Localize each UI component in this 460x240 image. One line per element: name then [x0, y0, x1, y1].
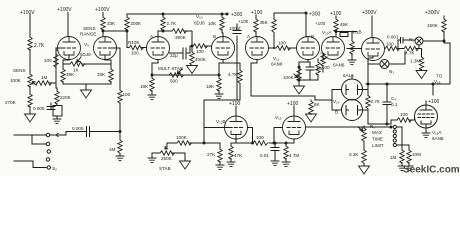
wire	[67, 13, 69, 37]
supply +100V (V9B)	[95, 7, 110, 13]
ground (arrow)	[359, 163, 370, 174]
potentiometer R3	[362, 126, 366, 150]
top rail +300	[127, 13, 227, 15]
neon N2	[404, 37, 445, 49]
ground	[116, 153, 124, 160]
svg-text:1M: 1M	[41, 75, 48, 80]
resistor 220K	[55, 88, 72, 104]
svg-text:1M: 1M	[390, 155, 397, 160]
ground (arrow)	[187, 66, 198, 74]
cathode wire to N1	[368, 57, 380, 65]
wire	[426, 84, 433, 105]
resistor 100 (V12A cathode)	[316, 53, 327, 72]
svg-text:150K: 150K	[427, 23, 439, 28]
svg-text:+300V: +300V	[425, 10, 440, 16]
label STAB	[159, 166, 171, 171]
mult stab rail	[152, 74, 219, 76]
resistor 1M	[37, 75, 52, 85]
potentiometer 100K (sens)	[10, 74, 36, 87]
resistor 1.3M	[410, 57, 424, 70]
capacitor 22uf	[170, 46, 191, 59]
svg-text:SeekIC.com: SeekIC.com	[403, 165, 460, 176]
svg-text:R109: R109	[128, 40, 139, 45]
label V9 6DJ8	[80, 42, 91, 57]
svg-text:2.7K: 2.7K	[371, 99, 381, 104]
svg-text:8K: 8K	[314, 102, 321, 107]
capacitor 0.005 (input)	[33, 103, 55, 111]
tube V13B	[362, 38, 385, 61]
tube V14A (6AL5)	[342, 76, 363, 101]
svg-text:V₁₀: V₁₀	[196, 14, 203, 19]
cathode wire V11A	[251, 60, 257, 97]
resistor 100 (coupling)	[269, 41, 297, 51]
svg-text:V₁₃B: V₁₃B	[352, 30, 362, 35]
svg-text:V₁₅: V₁₅	[275, 115, 282, 120]
svg-text:0.001: 0.001	[387, 35, 399, 40]
switch S3 contacts	[393, 125, 396, 146]
tube V14B (6AL5)	[342, 100, 363, 121]
capacitor 0.001	[387, 35, 404, 44]
label 6AN8	[333, 63, 345, 68]
svg-text:6DJ8: 6DJ8	[80, 52, 91, 57]
ground (arrow)	[81, 90, 92, 98]
wire +300 node	[274, 12, 306, 14]
svg-text:100: 100	[196, 49, 204, 54]
supply +100 (V16A)	[428, 99, 439, 105]
label V12A	[322, 30, 332, 35]
resistor 33K	[101, 17, 116, 30]
wire	[222, 30, 223, 37]
svg-text:+300: +300	[309, 12, 320, 18]
resistor 200K	[125, 14, 142, 30]
supply +100V (left)	[20, 10, 35, 16]
svg-text:V₁₄: V₁₄	[333, 99, 340, 104]
ground	[53, 116, 61, 123]
capacitor 100uf	[229, 24, 241, 34]
wire 250K net	[167, 143, 220, 149]
svg-text:0.005: 0.005	[72, 126, 84, 131]
potentiometer 250K	[152, 146, 185, 161]
svg-text:1M: 1M	[109, 147, 116, 152]
label V12B	[216, 119, 225, 124]
resistor 35K (V11A plate)	[254, 15, 269, 37]
wire	[29, 87, 31, 95]
wire / node	[103, 30, 127, 37]
wire N1 to detector	[367, 64, 369, 84]
wire N1 bus	[389, 51, 405, 64]
resistor 150K	[427, 16, 446, 42]
tube V10A	[147, 34, 170, 60]
supply +300V (V13B)	[362, 10, 377, 16]
resistor 3.3K	[349, 150, 366, 163]
svg-text:1.3M: 1.3M	[410, 59, 420, 64]
watermark	[403, 165, 460, 176]
crystal box	[53, 104, 62, 117]
label R3	[370, 124, 375, 129]
grid wire V9B	[112, 48, 120, 90]
svg-text:+100V: +100V	[20, 10, 35, 16]
wire	[158, 30, 163, 37]
potentiometer 100K (V11B cathode)	[283, 66, 301, 81]
svg-text:TO: TO	[436, 74, 443, 79]
resistor 100 (V9A grid)	[44, 54, 58, 67]
supply +300 label	[231, 12, 242, 18]
label 6AL5	[343, 73, 354, 78]
tube V15	[283, 116, 306, 139]
resistor 10M	[407, 150, 421, 163]
cathode bus	[231, 135, 294, 146]
resistor 100 (V11B)	[310, 59, 330, 80]
supply +100 (45K)	[330, 11, 341, 17]
resistor 47K	[229, 146, 243, 159]
switch S3 wires	[397, 127, 410, 150]
label MAX TIME LIMIT	[372, 130, 384, 148]
tube V11A	[246, 34, 269, 60]
svg-text:B: B	[335, 110, 338, 115]
label V15	[275, 115, 282, 120]
wire	[36, 50, 58, 88]
svg-text:+300V: +300V	[362, 10, 377, 16]
svg-text:0.1: 0.1	[391, 102, 398, 107]
ground (arrow)	[416, 70, 427, 79]
svg-text:6DJ8: 6DJ8	[194, 21, 205, 26]
wire	[235, 106, 237, 116]
label V11 6AN8	[271, 56, 283, 67]
svg-text:MULT STAB: MULT STAB	[158, 66, 183, 71]
svg-text:27K: 27K	[207, 152, 216, 157]
resistor 8K	[309, 100, 321, 114]
resistor 10K	[208, 14, 224, 30]
svg-text:R₃: R₃	[370, 124, 375, 129]
label MULT STAB	[158, 66, 183, 71]
resistor 100 (V16 grid)	[387, 112, 415, 124]
supply +100 (screen)	[315, 21, 326, 26]
cathode rail	[63, 82, 111, 91]
svg-text:S₂: S₂	[52, 166, 57, 171]
svg-text:SENS: SENS	[83, 26, 96, 31]
neon N1	[380, 60, 394, 75]
tube V12A	[322, 37, 345, 60]
svg-text:+100: +100	[238, 19, 249, 24]
svg-text:45K: 45K	[340, 22, 349, 27]
svg-text:2.7K: 2.7K	[167, 21, 177, 26]
svg-text:C₄: C₄	[391, 96, 396, 101]
grid wire V15	[274, 128, 283, 144]
svg-text:B: B	[213, 34, 216, 39]
svg-text:270K: 270K	[5, 100, 17, 105]
svg-text:+100: +100	[287, 101, 298, 107]
resistor 18K (right)	[206, 75, 221, 91]
svg-text:250K: 250K	[161, 156, 173, 161]
svg-text:4.7M: 4.7M	[289, 153, 299, 158]
switch S2 wires	[14, 135, 46, 168]
ground (pot left)	[148, 153, 156, 162]
wire V11B plate	[305, 13, 307, 37]
tube V9A	[58, 37, 81, 60]
svg-text:39K: 39K	[66, 72, 75, 77]
ground	[282, 159, 290, 167]
wire to coupling cap	[50, 132, 84, 137]
label TO V16	[434, 74, 443, 85]
capacitor 0.005 (coupling)	[72, 126, 91, 137]
output bus TO V16	[366, 83, 450, 85]
screen box	[335, 31, 357, 37]
resistor (screen)	[272, 13, 276, 49]
bus wires (box)	[204, 36, 342, 143]
svg-text:100: 100	[386, 42, 394, 47]
label V10 6DJ8	[194, 14, 205, 26]
ground (arrow)	[25, 107, 36, 123]
label V13B	[352, 30, 362, 35]
supply +100 (V15)	[287, 101, 298, 107]
svg-text:100K: 100K	[176, 135, 188, 140]
wire	[29, 50, 31, 75]
wire to V13B grid	[347, 48, 362, 50]
svg-text:400K: 400K	[195, 57, 207, 62]
tube V12B	[225, 116, 248, 139]
plate wires	[362, 84, 387, 124]
screen resistor + ground	[348, 32, 356, 65]
ground	[216, 162, 224, 170]
capacitor C4 0.1	[383, 84, 398, 124]
grid wire V9A	[56, 48, 62, 50]
svg-text:+100: +100	[229, 101, 240, 107]
svg-text:200K: 200K	[131, 21, 143, 26]
svg-text:100K: 100K	[283, 75, 295, 80]
wire to 1M node	[91, 131, 120, 133]
resistor 4.7K (V10B cathode)	[223, 63, 242, 100]
wire	[126, 30, 128, 48]
labels V14 B	[333, 99, 340, 115]
resistor 100 (interstage)	[253, 135, 268, 145]
resistor 100 (V13B out)	[385, 40, 400, 51]
svg-text:10M: 10M	[412, 152, 421, 157]
resistor 33K (V9B cathode)	[97, 64, 113, 82]
svg-text:LIMIT: LIMIT	[372, 143, 384, 148]
resistor 100 (x118 chain)	[118, 90, 131, 103]
resistor 4.7K	[398, 46, 422, 57]
tube V9B	[94, 37, 117, 60]
cathode drop wires	[152, 60, 223, 76]
resistor 400K	[190, 46, 207, 65]
supply +300V (150K)	[425, 10, 440, 16]
svg-text:V₁₆: V₁₆	[434, 79, 441, 84]
ground (arrow)	[294, 86, 305, 94]
supply +100 (decoupling)	[238, 10, 262, 24]
svg-text:RANGE: RANGE	[80, 32, 96, 37]
plate coupling wire	[248, 128, 253, 144]
potentiometer 1K (sens range)	[63, 57, 111, 73]
svg-text:22μ: 22μ	[170, 53, 178, 58]
label V16A 6AN8	[432, 130, 444, 141]
svg-text:100K: 100K	[10, 78, 22, 83]
capacitor 0.01	[260, 142, 279, 161]
svg-text:100: 100	[256, 135, 264, 140]
svg-text:0.01: 0.01	[260, 153, 269, 158]
svg-text:6AN8: 6AN8	[271, 62, 283, 67]
svg-text:4.7K: 4.7K	[405, 51, 415, 56]
wire	[371, 16, 373, 38]
resistor 390K	[163, 29, 192, 46]
resistor 39K	[61, 64, 75, 82]
resistor 18K (left)	[140, 75, 154, 91]
potentiometer 500	[169, 69, 184, 84]
svg-text:V₁₂B: V₁₂B	[216, 119, 225, 124]
ground	[271, 161, 279, 165]
ground	[405, 163, 413, 171]
wire	[293, 106, 295, 116]
node SENS	[13, 68, 26, 73]
ground	[215, 91, 223, 99]
switch S2 contacts	[46, 133, 57, 171]
supply +100 (V12B)	[229, 101, 240, 107]
wire	[119, 103, 121, 140]
svg-text:V₁₁: V₁₁	[273, 56, 280, 61]
svg-text:18K: 18K	[206, 84, 215, 89]
wire to V16	[444, 41, 450, 84]
svg-text:SENS: SENS	[13, 68, 26, 73]
svg-text:6AN8: 6AN8	[333, 63, 345, 68]
label SENS RANGE	[80, 26, 96, 37]
svg-text:TIME: TIME	[372, 137, 383, 142]
svg-text:+100: +100	[428, 99, 439, 105]
svg-text:10K: 10K	[208, 21, 217, 26]
ground	[398, 163, 406, 171]
svg-text:47K: 47K	[234, 153, 243, 158]
svg-text:33K: 33K	[107, 21, 116, 26]
cathode wires	[63, 56, 111, 65]
svg-text:390K: 390K	[175, 35, 187, 40]
ground (arrow, pot right)	[180, 153, 191, 169]
resistor R109 100	[127, 40, 147, 56]
svg-text:35K: 35K	[260, 20, 269, 25]
svg-text:0.005: 0.005	[33, 106, 45, 111]
cathode wire V11B	[299, 60, 308, 86]
svg-text:500: 500	[170, 79, 178, 84]
svg-text:V₁₆A: V₁₆A	[432, 130, 442, 135]
ground	[227, 159, 235, 167]
wire	[102, 13, 104, 18]
cathode ground	[422, 124, 430, 137]
plate out wire to R3	[306, 127, 392, 131]
tube V16A	[415, 105, 438, 128]
ground	[148, 91, 156, 100]
resistor 2.7K	[28, 37, 45, 50]
supply +100V (V9A)	[57, 7, 72, 13]
svg-text:STAB: STAB	[159, 166, 171, 171]
tube V10B	[212, 34, 235, 60]
svg-text:MAX: MAX	[372, 130, 382, 135]
svg-text:220K: 220K	[60, 95, 72, 100]
svg-text:+300: +300	[231, 12, 242, 18]
resistor 100K	[176, 135, 220, 145]
grid wire	[204, 127, 229, 129]
svg-text:V₁₂A: V₁₂A	[322, 30, 332, 35]
svg-text:+100: +100	[315, 21, 326, 26]
resistor 2.7K (detector load)	[366, 96, 381, 109]
resistor 1M	[390, 150, 404, 163]
ground (arrow)	[306, 114, 317, 123]
svg-text:100: 100	[44, 58, 52, 63]
resistor 1M (grid leak)	[109, 140, 122, 153]
svg-text:N₁: N₁	[389, 69, 394, 74]
svg-text:B: B	[311, 34, 314, 39]
supply +300 label	[309, 12, 320, 18]
resistor 27K	[207, 149, 222, 162]
resistor 100 (V10B grid)	[190, 44, 212, 54]
svg-text:100: 100	[400, 112, 408, 117]
svg-text:100: 100	[131, 51, 139, 56]
svg-text:100: 100	[123, 92, 131, 97]
svg-text:+100V: +100V	[57, 7, 72, 13]
resistor 2.7K (V10A plate)	[161, 14, 177, 30]
svg-text:V₉: V₉	[84, 42, 89, 47]
resistor 270K	[5, 94, 32, 107]
svg-text:6AN8: 6AN8	[432, 136, 444, 141]
svg-text:+100: +100	[251, 10, 262, 16]
svg-text:3.3K: 3.3K	[349, 152, 359, 157]
svg-text:18K: 18K	[140, 84, 149, 89]
tube V11B	[297, 34, 320, 60]
svg-text:100: 100	[278, 41, 286, 46]
svg-text:33K: 33K	[97, 72, 106, 77]
resistor 4.7M	[284, 142, 300, 159]
resistor 45K	[334, 16, 349, 37]
wire	[29, 14, 31, 37]
svg-text:2.7K: 2.7K	[34, 43, 45, 49]
capacitor (cathode bypass)	[299, 62, 314, 80]
